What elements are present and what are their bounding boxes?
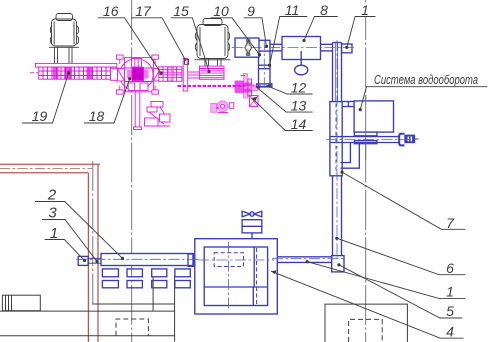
svg-text:10: 10	[213, 3, 229, 19]
svg-text:18: 18	[89, 108, 105, 124]
svg-text:16: 16	[103, 3, 119, 19]
svg-text:1: 1	[361, 2, 369, 18]
svg-text:6: 6	[446, 260, 454, 276]
svg-text:7: 7	[446, 215, 455, 231]
svg-text:3: 3	[48, 205, 57, 222]
svg-text:13: 13	[291, 97, 307, 113]
svg-text:Система водооборота: Система водооборота	[374, 72, 478, 87]
svg-text:4: 4	[446, 324, 454, 340]
svg-text:1: 1	[50, 225, 58, 242]
svg-text:8: 8	[320, 2, 328, 18]
svg-text:17: 17	[135, 3, 152, 19]
svg-text:9: 9	[247, 3, 255, 19]
svg-text:12: 12	[291, 79, 307, 95]
svg-text:1: 1	[446, 284, 454, 300]
svg-text:15: 15	[173, 3, 189, 19]
svg-text:2: 2	[47, 187, 57, 204]
svg-text:5: 5	[446, 303, 454, 319]
svg-text:11: 11	[285, 2, 300, 18]
svg-text:14: 14	[291, 116, 307, 132]
svg-text:19: 19	[32, 108, 48, 124]
